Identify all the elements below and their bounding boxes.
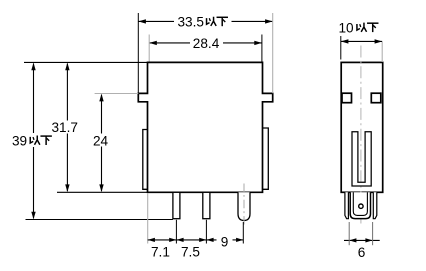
relay body side view xyxy=(341,62,383,192)
dimension line 7.1 / 7.5 / 9 xyxy=(148,238,244,242)
terminal housing right wall xyxy=(373,192,377,218)
U channel slot xyxy=(352,132,371,186)
dimension line 39以下 xyxy=(31,63,35,220)
dimension 6 xyxy=(344,238,380,242)
side right tab square xyxy=(371,93,381,103)
svg-text:28.4: 28.4 xyxy=(193,36,220,51)
svg-text:33.5: 33.5 xyxy=(178,14,204,29)
extension line 28.4 right xyxy=(261,35,263,62)
pin 3 centerline xyxy=(243,184,245,225)
bottom dimension extension: pin3 center xyxy=(242,222,244,244)
extension line 33.5 left xyxy=(137,13,139,93)
svg-text:39: 39 xyxy=(12,133,27,148)
terminal dimple hole xyxy=(359,204,363,208)
top reference line (body top extended left) xyxy=(24,61,147,63)
pin 3 (round terminal) xyxy=(238,192,250,220)
extension line 6 right xyxy=(372,222,374,245)
reference line for 24 top xyxy=(95,93,139,95)
svg-text:7.1: 7.1 xyxy=(151,245,170,260)
pin 2 xyxy=(203,192,210,218)
svg-text:31.7: 31.7 xyxy=(52,120,78,135)
extension line 10 right xyxy=(381,42,383,62)
extension line 10 left xyxy=(340,36,342,60)
extension line 6 left xyxy=(348,222,350,245)
label 33.5以下 xyxy=(178,14,228,29)
dimension 10以下 xyxy=(341,39,382,43)
dimension 28.4 xyxy=(149,41,262,45)
bottom dimension extension: pin2 center xyxy=(205,220,207,244)
relay body front view with mounting tab notches xyxy=(138,62,272,192)
extension line 33.5 right xyxy=(272,13,274,93)
bottom dimension extension: pin1 center xyxy=(175,220,177,244)
dimension 33.5以下 xyxy=(138,19,272,23)
svg-text:9: 9 xyxy=(221,234,229,249)
svg-text:24: 24 xyxy=(93,133,109,148)
right side plate xyxy=(263,128,269,189)
body bottom reference line extended left xyxy=(57,191,148,193)
extension line 28.4 left xyxy=(148,35,150,62)
pin bottom reference line xyxy=(26,219,173,221)
bottom dimension extension: body left edge xyxy=(147,194,149,244)
pin 1 xyxy=(173,192,180,218)
svg-text:10: 10 xyxy=(339,20,355,35)
dimension line 31.7 xyxy=(65,63,69,192)
svg-text:7.5: 7.5 xyxy=(181,245,200,260)
left side plate xyxy=(143,130,148,190)
svg-text:6: 6 xyxy=(358,245,366,260)
QC terminal tab side view xyxy=(350,192,370,218)
side view center line xyxy=(360,46,362,224)
dimension line 24 xyxy=(99,94,103,192)
label 10以下 xyxy=(339,20,379,35)
label 39以下 xyxy=(12,133,52,148)
side left tab square xyxy=(342,93,352,103)
terminal housing left wall xyxy=(345,192,349,218)
